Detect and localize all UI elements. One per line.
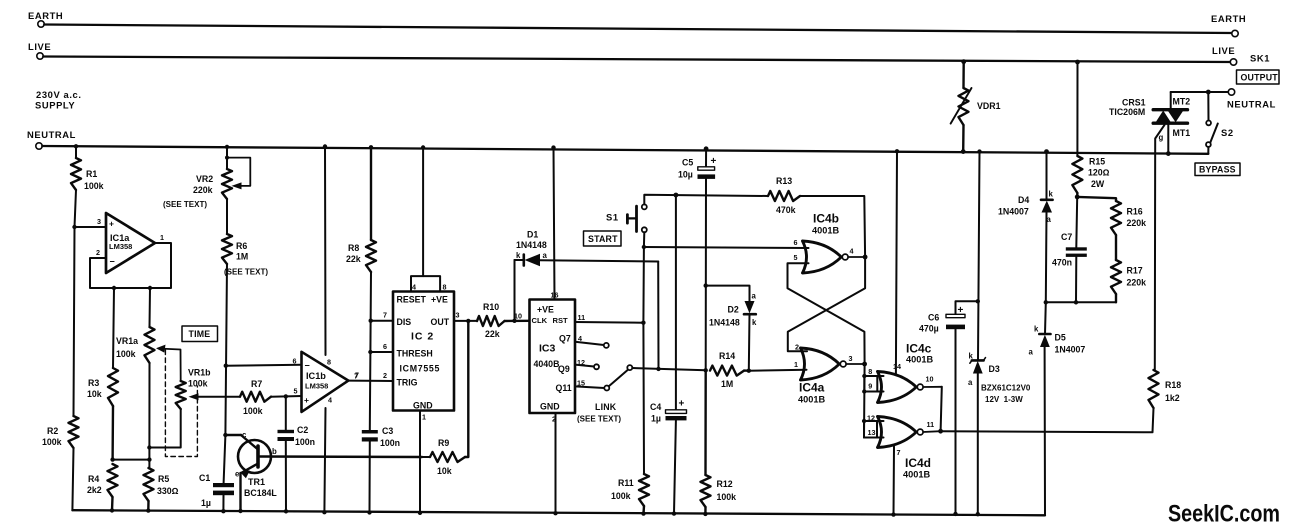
- svg-text:MT2: MT2: [1173, 97, 1191, 107]
- svg-text:R11: R11: [618, 478, 634, 488]
- svg-text:S2: S2: [1221, 127, 1234, 138]
- resistor R12: [701, 370, 737, 516]
- svg-text:1N4007: 1N4007: [998, 207, 1029, 217]
- capacitor C4: [650, 195, 687, 516]
- svg-text:IC4a: IC4a: [799, 381, 825, 395]
- resistor R2: [42, 416, 79, 448]
- wire triac MT1 to rail: [1166, 125, 1171, 156]
- svg-text:7: 7: [355, 371, 359, 380]
- svg-text:DIS: DIS: [397, 317, 412, 327]
- node NEUTRAL terminal left: [27, 129, 76, 149]
- svg-text:1N4007: 1N4007: [1055, 345, 1086, 355]
- svg-text:LIVE: LIVE: [28, 41, 51, 52]
- node LIVE terminal left: [28, 41, 51, 59]
- svg-text:MT1: MT1: [1173, 128, 1191, 138]
- svg-text:6: 6: [794, 238, 798, 247]
- svg-text:22k: 22k: [346, 254, 361, 264]
- svg-text:100k: 100k: [717, 492, 737, 502]
- wire IC4c output joins IC4d output: [941, 387, 942, 431]
- resistor R14: [710, 351, 749, 389]
- svg-text:NEUTRAL: NEUTRAL: [27, 129, 76, 140]
- wire IC3 RST to S1 line: [575, 321, 646, 325]
- svg-text:+: +: [958, 305, 964, 316]
- svg-text:a: a: [543, 251, 548, 260]
- svg-text:IC4b: IC4b: [813, 212, 839, 226]
- wire IC3 GND to rail: [553, 413, 557, 515]
- node C5 line to link junction: [704, 283, 708, 372]
- svg-text:100n: 100n: [295, 437, 315, 447]
- svg-text:(SEE TEXT): (SEE TEXT): [577, 415, 621, 424]
- capacitor C7: [1052, 197, 1087, 302]
- svg-text:TIC206M: TIC206M: [1109, 107, 1145, 117]
- node START label box: [584, 231, 622, 246]
- svg-text:2: 2: [795, 343, 799, 352]
- svg-text:b: b: [272, 447, 277, 456]
- node link terminal Q11: [575, 386, 609, 391]
- diode D5: [1029, 302, 1086, 515]
- potentiometer VR1b: [176, 368, 211, 410]
- resistor R15: [1072, 156, 1109, 199]
- wire VR1 bottom connections: [110, 363, 180, 468]
- svg-text:BZX61C12V0: BZX61C12V0: [981, 384, 1031, 393]
- svg-text:+: +: [679, 399, 685, 410]
- svg-text:2: 2: [383, 371, 387, 380]
- svg-text:100k: 100k: [611, 491, 631, 501]
- svg-text:a: a: [1029, 348, 1034, 357]
- svg-text:9: 9: [868, 382, 872, 391]
- svg-text:VR1a: VR1a: [116, 336, 138, 346]
- svg-text:Q9: Q9: [558, 364, 570, 374]
- svg-text:+VE: +VE: [537, 305, 554, 315]
- svg-text:TRIG: TRIG: [397, 378, 418, 388]
- wire IC1b power pin 8 line: [323, 144, 327, 355]
- svg-text:1M: 1M: [236, 252, 248, 262]
- svg-text:3: 3: [849, 354, 853, 363]
- svg-text:SUPPLY: SUPPLY: [35, 100, 75, 111]
- svg-text:1N4148: 1N4148: [709, 318, 740, 328]
- svg-text:OUT: OUT: [431, 317, 450, 327]
- resistor R17: [1111, 235, 1146, 302]
- svg-text:D3: D3: [989, 364, 1000, 374]
- wire D1 cathode down to CLK: [512, 260, 516, 323]
- svg-text:EARTH: EARTH: [1211, 13, 1246, 24]
- resistor R11: [611, 474, 649, 516]
- svg-text:TR1: TR1: [248, 477, 265, 487]
- switch LINK lever and common: [577, 365, 706, 423]
- svg-text:7: 7: [897, 448, 901, 457]
- svg-text:TIME: TIME: [189, 329, 211, 339]
- node link terminal Q7: [575, 342, 609, 348]
- svg-text:D2: D2: [728, 305, 739, 315]
- switch S2: [1206, 92, 1234, 154]
- svg-text:SK1: SK1: [1250, 53, 1270, 64]
- wire VR2-R6 vertical line: [225, 145, 229, 435]
- potentiometer VR2: [163, 156, 250, 209]
- svg-text:220k: 220k: [193, 185, 213, 195]
- svg-text:BYPASS: BYPASS: [1199, 165, 1236, 175]
- svg-text:LM358: LM358: [109, 242, 132, 251]
- svg-text:R14: R14: [719, 351, 735, 361]
- svg-text:22k: 22k: [485, 329, 500, 339]
- svg-text:START: START: [588, 234, 618, 244]
- svg-text:1µ: 1µ: [201, 498, 211, 508]
- svg-text:8: 8: [327, 358, 331, 367]
- op-amp IC1a: [96, 213, 164, 273]
- svg-text:12V 1-3W: 12V 1-3W: [985, 395, 1023, 404]
- svg-text:R18: R18: [1165, 380, 1181, 390]
- node TIME label box: [182, 326, 218, 342]
- wire IC2 reset +ve top bracket to rail: [411, 145, 447, 291]
- transistor TR1: [223, 431, 422, 514]
- svg-text:GND: GND: [413, 401, 433, 411]
- svg-text:4001B: 4001B: [903, 470, 930, 480]
- node BYPASS label box: [1195, 163, 1240, 176]
- wire LIVE feed to R15: [1075, 60, 1080, 156]
- svg-text:a: a: [752, 292, 757, 301]
- node EARTH terminal left: [28, 10, 63, 27]
- svg-text:R5: R5: [158, 474, 169, 484]
- svg-text:ICM7555: ICM7555: [400, 364, 441, 374]
- node NEUTRAL output terminal: [1227, 89, 1276, 110]
- NOR gate IC4b: [794, 212, 866, 274]
- svg-text:1N4148: 1N4148: [516, 240, 547, 250]
- resistor R4: [87, 464, 118, 513]
- svg-text:IC3: IC3: [539, 343, 556, 355]
- svg-text:THRESH: THRESH: [397, 349, 433, 359]
- svg-text:2W: 2W: [1091, 179, 1105, 189]
- svg-text:10k: 10k: [437, 466, 452, 476]
- svg-text:k: k: [1049, 190, 1054, 199]
- svg-text:SeekIC.com: SeekIC.com: [1168, 501, 1280, 528]
- switch S1 push button: [606, 204, 647, 232]
- svg-text:+: +: [711, 156, 717, 167]
- svg-text:7: 7: [383, 311, 387, 320]
- node link terminal Q9: [575, 364, 599, 369]
- svg-text:C5: C5: [682, 158, 693, 168]
- svg-text:Q7: Q7: [559, 334, 571, 344]
- svg-text:(SEE TEXT): (SEE TEXT): [163, 200, 207, 209]
- svg-text:470n: 470n: [1052, 258, 1072, 268]
- svg-text:LIVE: LIVE: [1212, 45, 1235, 56]
- svg-text:100k: 100k: [243, 406, 263, 416]
- wire IC2 OUT to R10: [454, 319, 477, 323]
- svg-text:4001B: 4001B: [798, 395, 825, 405]
- potentiometer VR1a: [116, 327, 155, 363]
- 230V a.c. SUPPLY label: [35, 89, 82, 111]
- svg-text:100k: 100k: [116, 349, 136, 359]
- node R6-C1-TR1 junction and IC1b inverting wire: [224, 364, 302, 368]
- svg-text:100n: 100n: [380, 438, 400, 448]
- svg-text:k: k: [1034, 325, 1039, 334]
- svg-text:e: e: [235, 470, 240, 479]
- wire triac gate line down to R18: [1155, 125, 1165, 370]
- wire TR1 base to R9: [422, 456, 430, 458]
- diode D3 zener: [968, 149, 1031, 516]
- op-amp IC1b: [293, 352, 359, 412]
- svg-text:−: −: [305, 361, 310, 371]
- svg-text:1M: 1M: [721, 379, 733, 389]
- NOR gate IC4c: [868, 342, 942, 403]
- svg-text:S1: S1: [606, 212, 619, 223]
- resistor R10: [477, 302, 530, 339]
- wire IC4c power pin14 to rail: [895, 149, 899, 373]
- wire S1 bottom to RST R11 line: [642, 232, 646, 474]
- op-amp IC3 4040B counter box: [514, 291, 585, 424]
- node LIVE terminal right: [1212, 45, 1270, 65]
- svg-text:2: 2: [96, 248, 100, 257]
- svg-text:(SEE TEXT): (SEE TEXT): [224, 268, 268, 277]
- svg-text:Q11: Q11: [556, 383, 572, 393]
- svg-text:4: 4: [850, 247, 854, 256]
- resistor R8: [346, 145, 376, 272]
- resistor R13: [768, 176, 800, 215]
- svg-text:−: −: [110, 257, 115, 267]
- svg-text:5: 5: [794, 253, 798, 262]
- svg-text:C2: C2: [297, 425, 308, 435]
- svg-text:R7: R7: [251, 379, 262, 389]
- svg-text:k: k: [969, 352, 974, 361]
- svg-text:k: k: [752, 318, 757, 327]
- svg-text:2k2: 2k2: [87, 485, 102, 495]
- svg-text:4: 4: [412, 283, 416, 292]
- svg-text:D1: D1: [527, 230, 538, 240]
- resistor R16: [1077, 197, 1146, 235]
- svg-text:C6: C6: [928, 313, 939, 323]
- svg-text:470k: 470k: [776, 205, 796, 215]
- svg-text:BC184L: BC184L: [244, 488, 277, 498]
- svg-text:R6: R6: [236, 241, 247, 251]
- svg-text:k: k: [516, 251, 521, 260]
- triac CRS1: [1109, 97, 1190, 143]
- wire S1 to IC4b input pin6: [644, 247, 809, 248]
- svg-text:VR1b: VR1b: [188, 368, 211, 378]
- svg-text:6: 6: [293, 357, 297, 366]
- svg-text:1µ: 1µ: [651, 414, 661, 424]
- svg-text:IC1b: IC1b: [306, 371, 326, 381]
- svg-text:10µ: 10µ: [678, 170, 693, 180]
- svg-text:10: 10: [926, 375, 934, 384]
- svg-text:1: 1: [422, 413, 426, 422]
- svg-text:4001B: 4001B: [906, 355, 933, 365]
- svg-text:R8: R8: [348, 243, 359, 253]
- svg-text:4040B: 4040B: [534, 359, 560, 369]
- wire IC4b output cross-couple to IC4a pin2: [788, 257, 865, 351]
- svg-text:C4: C4: [650, 402, 661, 412]
- svg-text:R1: R1: [86, 169, 97, 179]
- svg-text:8: 8: [868, 367, 872, 376]
- svg-text:+VE: +VE: [431, 295, 448, 305]
- diode D1: [515, 230, 659, 267]
- svg-text:IC4c: IC4c: [906, 342, 932, 356]
- svg-text:C7: C7: [1061, 232, 1072, 242]
- svg-text:+: +: [304, 395, 309, 405]
- wire VR1a wiper to VR1b top: [156, 345, 181, 381]
- svg-text:14: 14: [893, 362, 901, 371]
- svg-text:5: 5: [294, 387, 298, 396]
- svg-text:R2: R2: [47, 426, 58, 436]
- svg-text:120Ω: 120Ω: [1088, 168, 1110, 178]
- svg-text:IC4d: IC4d: [905, 456, 931, 470]
- svg-text:11: 11: [927, 420, 935, 429]
- wire IC1b power pin 4 line: [322, 408, 326, 514]
- svg-text:VDR1: VDR1: [977, 101, 1001, 111]
- svg-text:LM358: LM358: [305, 382, 328, 391]
- svg-text:470µ: 470µ: [919, 324, 939, 334]
- svg-text:230V a.c.: 230V a.c.: [36, 89, 82, 100]
- resistor R6: [222, 234, 268, 277]
- wire output neutral branch: [1171, 90, 1229, 109]
- wire D1 anode down to link common: [656, 262, 660, 372]
- svg-text:IC 2: IC 2: [411, 331, 434, 343]
- node IC1a plus-input junction: [72, 225, 106, 229]
- resistor R1: [71, 158, 104, 191]
- svg-text:OUTPUT: OUTPUT: [1241, 73, 1279, 83]
- wire IC4d power pin7 to rail: [891, 447, 895, 517]
- svg-text:3: 3: [97, 217, 101, 226]
- wire IC1b output to IC2 TRIG: [348, 380, 393, 382]
- svg-text:R17: R17: [1127, 266, 1143, 276]
- svg-text:LINK: LINK: [595, 402, 617, 412]
- svg-text:10: 10: [514, 312, 522, 321]
- svg-text:1k2: 1k2: [1165, 393, 1180, 403]
- svg-text:6: 6: [383, 342, 387, 351]
- svg-text:12: 12: [867, 414, 875, 423]
- svg-text:R13: R13: [776, 176, 792, 186]
- NOR gate IC4d: [867, 414, 943, 480]
- svg-text:g: g: [1159, 133, 1164, 142]
- svg-text:10k: 10k: [87, 389, 102, 399]
- svg-text:11: 11: [578, 313, 586, 322]
- svg-text:8: 8: [443, 283, 447, 292]
- svg-text:RST: RST: [553, 316, 569, 325]
- svg-text:C1: C1: [199, 473, 210, 483]
- svg-text:4: 4: [328, 396, 332, 405]
- svg-text:220k: 220k: [1127, 218, 1147, 228]
- svg-text:D5: D5: [1055, 333, 1066, 343]
- wire R14 to IC4a pin1: [749, 370, 807, 371]
- wire VR1b wiper arrow to R7: [189, 393, 241, 400]
- diode D2: [706, 286, 757, 373]
- resistor R3: [87, 368, 118, 460]
- svg-text:a: a: [1047, 215, 1052, 224]
- resistor R5: [144, 468, 179, 513]
- svg-text:R16: R16: [1127, 207, 1143, 217]
- svg-text:100k: 100k: [84, 181, 104, 191]
- svg-text:NEUTRAL: NEUTRAL: [1227, 99, 1276, 110]
- svg-text:R4: R4: [88, 474, 99, 484]
- wire EARTH rail: [44, 25, 1232, 34]
- svg-text:330Ω: 330Ω: [157, 486, 179, 496]
- wire rectifier node C7 R17 bottom: [1044, 300, 1116, 304]
- capacitor C2: [278, 425, 316, 514]
- svg-text:1: 1: [794, 360, 798, 369]
- node EARTH terminal right: [1211, 13, 1246, 37]
- svg-text:GND: GND: [540, 402, 560, 412]
- resistor R7: [240, 379, 271, 416]
- capacitor C5: [678, 146, 717, 370]
- capacitor C6: [919, 299, 980, 516]
- wire IC4a output to IC4c IC4d inputs: [862, 364, 884, 438]
- svg-text:R9: R9: [438, 438, 449, 448]
- svg-text:+: +: [109, 219, 114, 229]
- wire neutral supply rail: [42, 146, 1208, 154]
- op-amp IC2 ICM7555 timer box: [355, 292, 460, 422]
- svg-text:R15: R15: [1089, 157, 1105, 167]
- wire VR1 gang dashed link: [165, 350, 197, 457]
- wire IC1a feedback loop: [90, 243, 171, 368]
- svg-text:R3: R3: [88, 378, 99, 388]
- diode D4: [998, 149, 1054, 302]
- svg-text:EARTH: EARTH: [28, 10, 63, 21]
- wire IC4a output cross-couple to IC4b pin5: [788, 263, 865, 364]
- wire R1-R2 vertical line: [72, 144, 78, 510]
- svg-text:VR2: VR2: [196, 174, 213, 184]
- wire gate outputs to R18: [941, 408, 1154, 432]
- wire S1 top to C4 and R13: [644, 193, 768, 205]
- resistor R18: [1149, 370, 1182, 408]
- wire bottom 0V rail: [72, 510, 1045, 515]
- varistor VDR1: [951, 59, 1001, 154]
- node OUTPUT label box: [1237, 70, 1280, 84]
- wire R13 right to IC4b output: [800, 196, 867, 259]
- wire IC3 pin16 to rail: [551, 145, 555, 299]
- capacitor C1: [199, 435, 234, 513]
- svg-text:220k: 220k: [1127, 278, 1147, 288]
- capacitor C3: [362, 426, 400, 515]
- svg-text:RESET: RESET: [397, 295, 427, 305]
- resistor R9: [430, 321, 468, 476]
- svg-text:13: 13: [868, 428, 876, 437]
- svg-text:100k: 100k: [42, 437, 62, 447]
- svg-text:D4: D4: [1018, 195, 1029, 205]
- svg-text:C3: C3: [382, 426, 393, 436]
- svg-text:c: c: [242, 431, 247, 440]
- wire R8 to C3 line with DIS THRESH taps: [368, 272, 393, 430]
- wire LIVE rail: [43, 57, 1230, 63]
- wire IC2 GND pin to rail: [418, 411, 422, 516]
- wire R7 right to IC1b plus input: [271, 394, 302, 430]
- svg-text:R10: R10: [483, 302, 499, 312]
- svg-text:a: a: [968, 378, 973, 387]
- svg-text:CLK: CLK: [532, 316, 548, 325]
- svg-text:R12: R12: [717, 479, 733, 489]
- svg-text:3: 3: [456, 311, 460, 320]
- svg-text:1: 1: [160, 233, 164, 242]
- NOR gate IC4a: [794, 343, 867, 405]
- svg-text:4001B: 4001B: [812, 226, 839, 236]
